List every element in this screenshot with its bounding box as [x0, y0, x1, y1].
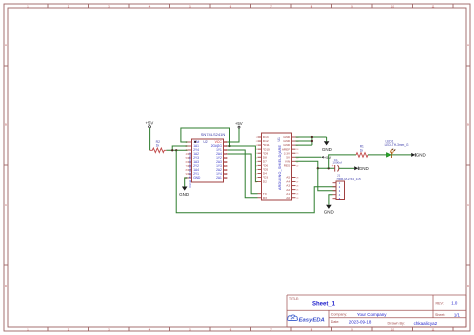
svg-text:+: + [332, 164, 334, 168]
LED LED1 LED-TH-3mm_G [385, 139, 409, 158]
junction node at U2 pin 19 (2G) [228, 145, 230, 147]
svg-text:3: 3 [256, 145, 257, 147]
svg-text:11: 11 [224, 177, 227, 180]
svg-text:18: 18 [296, 149, 298, 151]
svg-text:Company:: Company: [331, 312, 347, 316]
svg-text:20: 20 [224, 141, 227, 144]
ground flag below J1 [324, 205, 335, 215]
svg-text:SN74LS241N: SN74LS241N [201, 132, 226, 137]
wire VIN net down to J1 pin 3 [318, 168, 336, 190]
wire U1 GND pins bus [296, 137, 327, 145]
op IC U2 SN74LS241N octal buffer [184, 132, 227, 188]
svg-text:11: 11 [255, 178, 257, 180]
svg-text:1: 1 [256, 137, 257, 139]
svg-text:2A1: 2A1 [216, 176, 222, 180]
resistor R2 1k [150, 140, 167, 153]
svg-text:1k: 1k [156, 144, 160, 148]
power flag +5V (at U1 5V pin) [321, 155, 331, 160]
ground flag right of U1 [322, 141, 333, 152]
svg-text:10: 10 [255, 173, 257, 175]
wire loop 1G# to 2G [181, 128, 230, 146]
svg-text:GND: GND [324, 210, 335, 215]
svg-text:12: 12 [255, 182, 257, 184]
svg-text:B: B [5, 123, 7, 127]
svg-text:LED-TH-3mm_G: LED-TH-3mm_G [385, 143, 409, 147]
svg-text:C: C [467, 203, 469, 207]
svg-text:EasyEDA: EasyEDA [299, 317, 325, 323]
ground flag right of LED [411, 153, 426, 158]
wire C1 minus to ground [339, 167, 354, 169]
svg-text:6: 6 [256, 157, 257, 159]
junction node GND bus a [311, 136, 313, 138]
svg-text:12: 12 [224, 173, 227, 176]
svg-text:14: 14 [224, 165, 227, 168]
svg-text:24: 24 [296, 194, 298, 196]
svg-text:TITLE:: TITLE: [289, 297, 299, 301]
svg-text:A: A [467, 43, 469, 47]
wire J1 pin 4 to ground [329, 195, 333, 205]
wire U2 2A4 to U1 TX [228, 154, 258, 194]
svg-text:U1: U1 [277, 137, 281, 141]
svg-text:27: 27 [296, 182, 298, 184]
power flag +5V (feeds U2 VCC) [235, 121, 243, 128]
svg-text:1/1: 1/1 [454, 313, 461, 318]
svg-text:RX: RX [263, 196, 267, 200]
junction node R1 tap [328, 167, 330, 169]
svg-text:1.0: 1.0 [451, 301, 458, 306]
svg-text:23: 23 [296, 198, 298, 200]
svg-text:Date:: Date: [331, 320, 340, 324]
svg-text:9: 9 [256, 169, 257, 171]
svg-text:A0: A0 [286, 196, 290, 200]
svg-text:A: A [5, 43, 7, 47]
svg-text:D: D [467, 284, 469, 288]
junction node on R2 net (to J1) [175, 149, 177, 151]
svg-text:5: 5 [256, 153, 257, 155]
title block [287, 295, 466, 327]
svg-text:GND: GND [359, 166, 370, 171]
svg-text:8: 8 [256, 165, 257, 167]
svg-text:4: 4 [339, 193, 341, 197]
svg-text:2: 2 [256, 141, 257, 143]
EasyEDA logo [287, 315, 324, 323]
svg-text:+5V: +5V [146, 121, 154, 126]
svg-text:REV:: REV: [436, 301, 444, 305]
svg-text:16: 16 [224, 157, 227, 160]
svg-text:3: 3 [339, 189, 341, 193]
svg-text:17: 17 [224, 153, 227, 156]
svg-text:28: 28 [296, 178, 298, 180]
wire +5V to U2 VCC pin 20 [228, 128, 240, 142]
junction node on R2 net (to 1A1) [171, 149, 173, 151]
svg-text:Your Company: Your Company [357, 312, 387, 317]
wire R2 net down and across to J1 pin 2 [176, 150, 336, 213]
wire U2 GND pin to ground [185, 178, 188, 187]
IC U1 ARDUINO_SHIELD [255, 133, 299, 200]
svg-text:Octal BUFFER/DRIVER: Octal BUFFER/DRIVER [188, 153, 192, 188]
ground flag right of C1 [354, 166, 369, 171]
svg-text:2023-09-18: 2023-09-18 [349, 320, 372, 325]
svg-text:25: 25 [296, 190, 298, 192]
svg-text:Sheet_1: Sheet_1 [312, 302, 336, 308]
resistor R1 1k [356, 145, 368, 158]
svg-text:2: 2 [339, 185, 341, 189]
svg-text:ARDUINO_SHIELD(ARE: ARDUINO_SHIELD(ARE [278, 144, 282, 190]
svg-text:22: 22 [296, 165, 298, 167]
svg-text:7: 7 [256, 161, 257, 163]
junction node VIN corner [317, 167, 319, 169]
svg-text:GND: GND [416, 153, 427, 158]
wire U2 pin19 net to U1 D2 [228, 146, 258, 182]
svg-text:+5V: +5V [235, 121, 243, 126]
svg-text:HDR-M-2.54_1x5: HDR-M-2.54_1x5 [337, 177, 361, 181]
wire U2 1Y1 to U1 RX [228, 150, 258, 198]
svg-text:19: 19 [296, 153, 298, 155]
wire LED cathode to ground [391, 154, 411, 156]
svg-text:1000uf: 1000uf [332, 161, 342, 165]
svg-text:RES: RES [284, 163, 290, 167]
power flag +5V (left, feeds R2) [146, 121, 154, 128]
svg-text:4: 4 [256, 149, 257, 151]
wire jog to U2 pin 2 (1A1) [172, 146, 187, 150]
wire U1 5V pin to +5V flag [296, 156, 322, 158]
svg-text:19: 19 [224, 145, 227, 148]
svg-text:5: 5 [339, 197, 341, 201]
junction node GND bus b [311, 140, 313, 142]
svg-text:U2: U2 [203, 140, 207, 144]
connector J1 HDR-M-2.54_1x5 [333, 173, 361, 201]
svg-text:26: 26 [296, 186, 298, 188]
svg-text:18: 18 [224, 149, 227, 152]
wire U1 VIN to C1 node [296, 161, 335, 168]
svg-text:C: C [5, 203, 7, 207]
svg-text:Sheet:: Sheet: [435, 313, 445, 317]
svg-text:15: 15 [224, 161, 227, 164]
ground flag below U2 [179, 187, 190, 198]
svg-text:D: D [5, 284, 7, 288]
svg-text:B: B [467, 123, 469, 127]
svg-text:13: 13 [224, 169, 227, 172]
svg-text:D2: D2 [263, 180, 267, 184]
wire R2 output to U2 pin 3 (2Y4) [166, 149, 187, 151]
svg-text:chkaalicya2: chkaalicya2 [414, 321, 438, 326]
svg-text:1k: 1k [360, 148, 364, 152]
wire +5V to R2 [149, 128, 151, 150]
svg-text:GND: GND [193, 176, 201, 180]
svg-text:Drawn By:: Drawn By: [388, 322, 406, 326]
svg-text:GND: GND [322, 147, 333, 152]
svg-text:GND: GND [179, 192, 190, 197]
capacitor C1 1000uF polarized [332, 158, 342, 172]
wire R1 to LED1 anode [368, 154, 386, 156]
wire VIN net up to R1 [329, 155, 356, 168]
svg-text:+5V: +5V [324, 155, 332, 160]
